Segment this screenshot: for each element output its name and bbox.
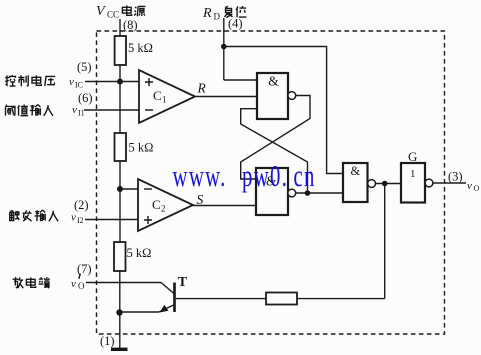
U3 output bubble <box>368 180 376 188</box>
svg-text:5 kΩ: 5 kΩ <box>129 141 154 155</box>
wire G out to vO <box>433 182 466 184</box>
svg-text:R: R <box>197 81 207 96</box>
svg-text:G: G <box>408 149 417 164</box>
svg-text:I1: I1 <box>78 109 85 118</box>
wire U1 out to NAND2 feedback input (cross) <box>241 96 310 180</box>
C1 plus sign <box>145 78 153 86</box>
svg-text:2: 2 <box>161 204 166 214</box>
svg-text:cn: cn <box>294 158 316 193</box>
svg-text:(1): (1) <box>100 334 115 348</box>
comparator C2 <box>138 179 193 231</box>
NAND gate U1 (latch upper) <box>257 73 288 119</box>
comparator C1 <box>139 70 195 123</box>
svg-text:IC: IC <box>75 81 83 90</box>
discharge terminal label <box>13 277 50 288</box>
svg-text:O: O <box>474 184 480 193</box>
NAND gate U3 <box>343 163 368 202</box>
svg-text:C: C <box>152 197 161 212</box>
svg-text:v: v <box>467 180 472 192</box>
svg-text:v: v <box>71 212 76 224</box>
resistor R2 5k <box>115 133 127 161</box>
inverter G <box>401 163 425 203</box>
svg-text:www.: www. <box>173 158 227 193</box>
wire U2 out up to NAND1 input3 (cross) <box>241 109 308 193</box>
wire U3 out to G <box>376 183 402 185</box>
wire base to resistor R4 <box>176 298 266 300</box>
svg-text:&: & <box>351 164 361 178</box>
svg-text:I2: I2 <box>77 216 84 225</box>
dashed boundary box of IC <box>97 31 445 334</box>
svg-text:(2): (2) <box>74 198 89 212</box>
node trigger ref (1/3 Vcc) <box>117 186 123 192</box>
resistor R3 5k <box>114 242 126 271</box>
T base bar <box>173 283 176 313</box>
node control (2/3 Vcc) <box>117 79 123 85</box>
svg-text:5 kΩ: 5 kΩ <box>127 246 152 260</box>
svg-text:(4): (4) <box>228 17 243 31</box>
Vcc supply label <box>96 4 145 20</box>
C2 plus sign <box>144 216 152 224</box>
threshold input label <box>5 105 52 116</box>
svg-text:S: S <box>197 192 204 207</box>
svg-text:1: 1 <box>410 168 416 180</box>
U1 output bubble <box>288 92 296 100</box>
G output bubble <box>425 179 433 187</box>
svg-text:v: v <box>71 278 76 290</box>
ground <box>111 348 128 351</box>
svg-text:v: v <box>72 104 77 116</box>
wire vIC to C1 + input <box>85 81 139 83</box>
svg-text:(5): (5) <box>77 60 92 74</box>
svg-text:(8): (8) <box>123 18 138 32</box>
resistor R1 5k <box>115 36 126 65</box>
svg-text:C: C <box>153 88 162 103</box>
svg-text:(3): (3) <box>448 170 463 184</box>
svg-text:O: O <box>78 281 85 291</box>
svg-text:(7): (7) <box>77 262 92 276</box>
svg-text:&: & <box>268 74 279 89</box>
svg-text:V: V <box>96 4 106 19</box>
wire U2 out to gate3 input2 <box>296 192 343 194</box>
trigger input label <box>10 210 58 221</box>
wire junction down to base resistor <box>384 184 386 299</box>
T emitter lead with arrow <box>159 305 175 313</box>
svg-text:5 kΩ: 5 kΩ <box>128 41 153 55</box>
node RD junction <box>221 44 227 50</box>
node S / wire C2 out to NAND2 <box>193 205 256 207</box>
wire RD junction across top to gate3 input1 <box>224 47 343 174</box>
wire vI1 to C1 - input <box>84 109 139 111</box>
C1 minus sign <box>145 109 153 111</box>
svg-text:T: T <box>178 275 188 290</box>
svg-text:(6): (6) <box>78 91 93 105</box>
wire R1 to R2 <box>119 65 121 133</box>
C2 minus sign <box>144 188 152 190</box>
wire vO' to collector <box>86 282 161 284</box>
node Q junction <box>305 190 311 196</box>
U2 output bubble <box>288 189 296 197</box>
wire R3 to ground <box>119 271 121 348</box>
svg-text:v: v <box>69 76 74 88</box>
reset RD label <box>202 6 247 22</box>
resistor R4 (base) <box>266 293 297 305</box>
wire Vcc to R1 <box>119 19 121 36</box>
wire RD junction to NAND1 input1 <box>224 79 257 81</box>
wire R4 to junction <box>297 298 385 300</box>
svg-text:1: 1 <box>162 95 167 105</box>
wire RD down <box>223 18 225 80</box>
svg-text:pw0.: pw0. <box>242 158 288 193</box>
watermark www.pw0.cn <box>173 158 316 193</box>
svg-text:CC: CC <box>107 10 119 20</box>
wire node to C2 - input <box>120 188 138 190</box>
wire R2 to R3 <box>119 161 121 242</box>
svg-text:D: D <box>214 12 221 22</box>
wire vI2 to C2 + input <box>85 219 138 221</box>
NAND gate U2 (latch lower) <box>256 168 288 215</box>
wire emitter to ground rail <box>120 311 160 313</box>
node R / wire C1 out to NAND1 <box>195 96 257 98</box>
node emitter junction <box>116 309 122 315</box>
svg-text:R: R <box>202 6 212 21</box>
transistor T <box>159 275 188 313</box>
node base drive junction <box>382 181 388 187</box>
T collector lead <box>161 283 175 295</box>
control voltage label <box>5 75 55 86</box>
